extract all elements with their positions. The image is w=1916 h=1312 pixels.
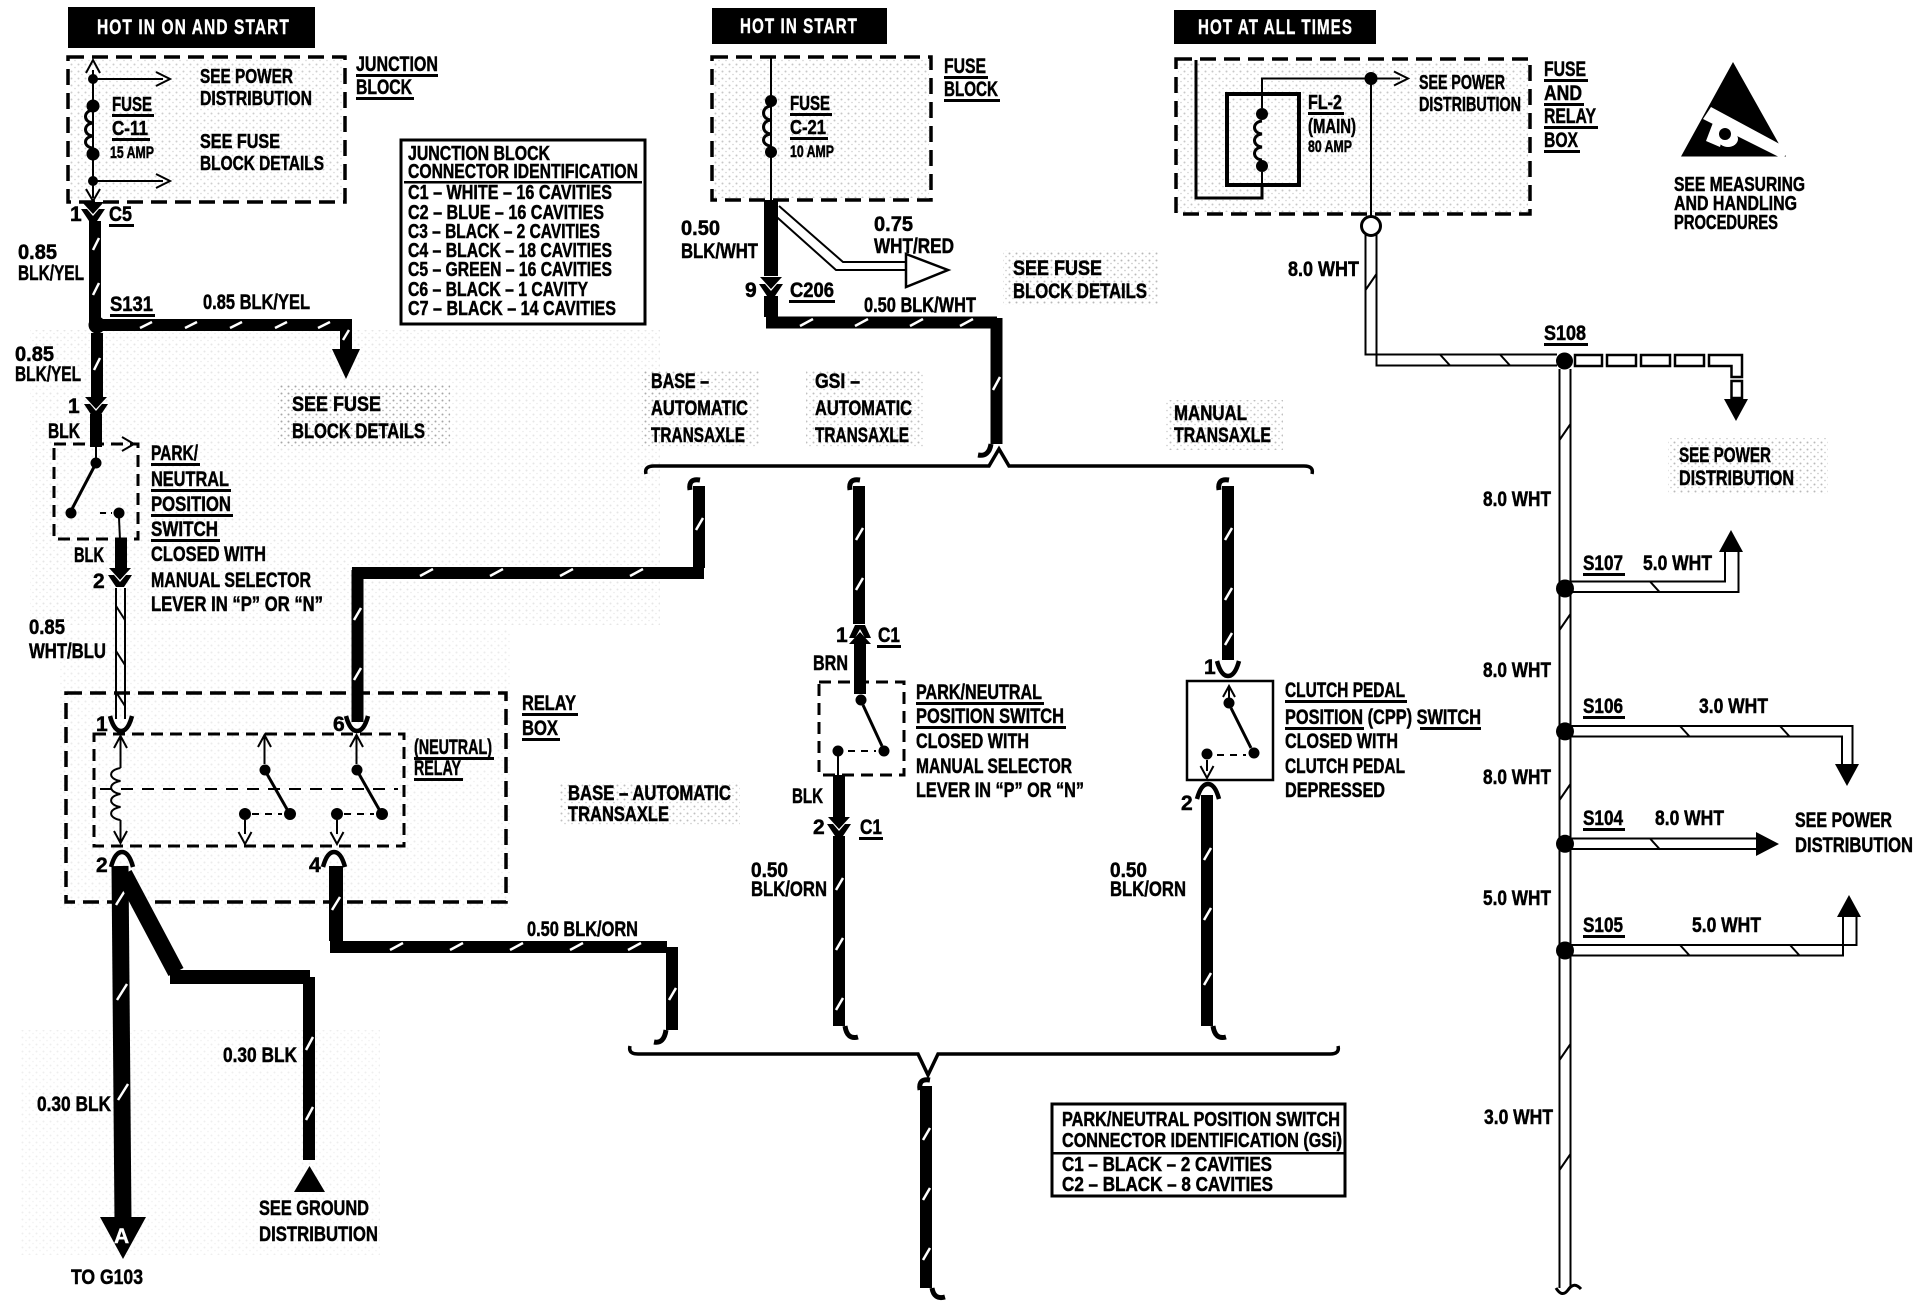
svg-text:S108: S108 [1544, 322, 1586, 345]
node S107 [1556, 580, 1574, 598]
svg-text:DISTRIBUTION: DISTRIBUTION [259, 1223, 378, 1246]
svg-text:PARK/NEUTRAL: PARK/NEUTRAL [916, 681, 1042, 704]
terminal circle [1362, 217, 1381, 236]
label SEE MEASURING AND HANDLING PROCEDURES [1674, 174, 1805, 234]
svg-text:POSITION (CPP) SWITCH: POSITION (CPP) SWITCH [1285, 706, 1481, 729]
wire 0.50 BLK/ORN (GSI) down [836, 836, 843, 1026]
svg-text:4: 4 [309, 854, 321, 877]
svg-text:BLK/ORN: BLK/ORN [1110, 878, 1186, 901]
wire end hook below brace wire [932, 1288, 945, 1298]
node: junction dot lower [88, 176, 98, 186]
svg-text:TRANSAXLE: TRANSAXLE [815, 424, 909, 447]
label S107 5.0 WHT [1583, 552, 1712, 576]
svg-text:RELAY: RELAY [1544, 105, 1596, 128]
wire GSI branch from brace [850, 480, 863, 624]
svg-text:2: 2 [93, 570, 105, 593]
label FUSE AND RELAY BOX [1544, 58, 1598, 153]
arrow down to see fuse block details [332, 349, 360, 379]
label BASE AUTOMATIC TRANSAXLE column [642, 370, 760, 448]
label S131 [110, 293, 155, 317]
label PARK/NEUTRAL POSITION SWITCH (GSI) [916, 681, 1084, 802]
fuse holder FL-2 box [1227, 94, 1299, 185]
svg-text:8.0 WHT: 8.0 WHT [1483, 766, 1551, 789]
svg-text:2: 2 [813, 816, 825, 839]
svg-text:DISTRIBUTION: DISTRIBUTION [1419, 94, 1521, 116]
node: dot above fuse C-21 [765, 95, 777, 107]
svg-text:(MAIN): (MAIN) [1308, 116, 1356, 138]
relay box outer dashed [66, 693, 506, 902]
svg-text:CLOSED WITH: CLOSED WITH [151, 543, 266, 566]
svg-text:0.50: 0.50 [681, 217, 720, 240]
svg-text:2: 2 [96, 854, 108, 877]
svg-text:BLK/YEL: BLK/YEL [18, 262, 84, 285]
svg-text:C-21: C-21 [790, 117, 826, 139]
label 0.50 BLK/WHT [681, 217, 758, 263]
junction block internal bus wire [86, 60, 100, 201]
node S131 [89, 317, 106, 334]
svg-text:0.50 BLK/WHT: 0.50 BLK/WHT [864, 294, 976, 317]
svg-text:0.85: 0.85 [29, 616, 65, 639]
arrow right (S104) [1756, 832, 1779, 856]
svg-text:BLOCK DETAILS: BLOCK DETAILS [1013, 280, 1147, 303]
connector pin 2 (CPP) [1181, 784, 1219, 815]
fuse block dashed box (middle) [712, 57, 931, 200]
label PARK/NEUTRAL POSITION SWITCH ... [151, 442, 323, 616]
svg-text:TRANSAXLE: TRANSAXLE [568, 803, 669, 826]
svg-text:FL-2: FL-2 [1308, 92, 1342, 114]
svg-text:AND: AND [1544, 82, 1582, 105]
arrow down (S106) [1835, 764, 1859, 786]
svg-text:0.50 BLK/ORN: 0.50 BLK/ORN [527, 918, 638, 941]
label FL-2 (MAIN) 80 AMP [1308, 92, 1356, 156]
header bar HOT IN ON AND START [68, 7, 315, 48]
svg-text:9: 9 [745, 279, 757, 302]
wire arrow to see fuse block details [93, 174, 170, 188]
svg-text:C7 – BLACK – 14 CAVITIES: C7 – BLACK – 14 CAVITIES [408, 298, 616, 320]
svg-text:MANUAL: MANUAL [1174, 402, 1247, 425]
svg-text:TRANSAXLE: TRANSAXLE [1174, 424, 1271, 447]
arrow down to see power distribution (S108) [1724, 399, 1748, 421]
svg-text:2: 2 [1181, 792, 1193, 815]
label JUNCTION BLOCK [356, 53, 438, 100]
wire continuation squiggle bottom right [1556, 1285, 1581, 1293]
label BLK 2 [74, 544, 105, 593]
label SEE POWER DISTRIBUTION (S108) [1668, 438, 1828, 494]
fuse and relay box dashed (right) [1176, 59, 1530, 214]
svg-text:TRANSAXLE: TRANSAXLE [651, 424, 745, 447]
PNP switch contacts and lever [66, 447, 125, 540]
svg-text:C2 – BLACK – 8 CAVITIES: C2 – BLACK – 8 CAVITIES [1062, 1174, 1273, 1196]
relay coil [111, 736, 127, 843]
fuse C-21 element [764, 106, 772, 146]
svg-text:SEE FUSE: SEE FUSE [1013, 257, 1102, 280]
svg-text:SEE POWER: SEE POWER [1419, 72, 1505, 94]
label 0.85 WHT/BLU [29, 616, 106, 663]
svg-text:C5: C5 [109, 203, 132, 226]
svg-text:3.0 WHT: 3.0 WHT [1699, 695, 1768, 718]
svg-text:1: 1 [836, 624, 848, 647]
svg-text:0.30 BLK: 0.30 BLK [223, 1044, 297, 1067]
svg-text:CLOSED WITH: CLOSED WITH [916, 730, 1029, 753]
svg-text:BLOCK DETAILS: BLOCK DETAILS [200, 153, 324, 175]
svg-text:HOT IN START: HOT IN START [740, 15, 858, 38]
svg-text:BOX: BOX [1544, 129, 1578, 152]
svg-text:POSITION SWITCH: POSITION SWITCH [916, 705, 1064, 728]
label 0.50 BLK/ORN (GSI) [751, 859, 827, 901]
svg-text:POSITION: POSITION [151, 493, 231, 516]
svg-text:DISTRIBUTION: DISTRIBUTION [1795, 834, 1913, 857]
svg-text:BLOCK: BLOCK [944, 78, 998, 101]
label RELAY BOX [522, 692, 578, 741]
node S105 [1556, 942, 1574, 960]
GSI switch contacts and lever [833, 695, 890, 776]
label 0.85 BLK/YEL upper [18, 241, 84, 285]
svg-text:LEVER IN “P” OR “N”: LEVER IN “P” OR “N” [916, 779, 1084, 802]
svg-text:1: 1 [68, 395, 80, 418]
svg-text:BLK: BLK [74, 544, 104, 567]
label MANUAL TRANSAXLE column [1165, 400, 1283, 450]
wire end hook (GSI) [845, 1026, 858, 1038]
svg-text:AUTOMATIC: AUTOMATIC [815, 397, 912, 420]
svg-text:80 AMP: 80 AMP [1308, 137, 1352, 156]
svg-text:JUNCTION: JUNCTION [356, 53, 438, 76]
label FUSE C-11 15 AMP [110, 94, 154, 162]
label 0.75 WHT/RED [874, 213, 954, 258]
svg-text:15 AMP: 15 AMP [110, 143, 154, 162]
svg-text:BASE –: BASE – [651, 370, 709, 393]
wire 0.30 BLK ground main to G103 [116, 866, 128, 1222]
GSI park/neutral switch dashed box [819, 682, 904, 775]
svg-text:C1: C1 [860, 816, 882, 839]
wire 0.85 BLK/YEL C5 to S131 [93, 221, 99, 325]
wire end hook above brace [978, 444, 991, 455]
svg-text:FUSE: FUSE [1544, 58, 1586, 81]
svg-text:WHT/BLU: WHT/BLU [29, 640, 106, 663]
wire 0.50 BLK/ORN (CPP) down [1204, 795, 1211, 1026]
relay pin 1 [96, 713, 132, 736]
svg-text:RELAY: RELAY [522, 692, 576, 715]
svg-text:SEE POWER: SEE POWER [1795, 809, 1892, 832]
CPP switch contacts and lever [1201, 686, 1260, 778]
svg-text:S106: S106 [1583, 695, 1623, 718]
svg-text:GSI –: GSI – [815, 370, 860, 393]
wire 0.85 BLK/YEL S131 down [94, 333, 100, 399]
label BASE AUTOMATIC TRANSAXLE (relay) [560, 782, 740, 826]
svg-text:DEPRESSED: DEPRESSED [1285, 779, 1385, 802]
svg-text:8.0 WHT: 8.0 WHT [1655, 807, 1724, 830]
label S105 5.0 WHT [1583, 914, 1761, 938]
svg-text:1: 1 [1204, 656, 1216, 679]
node S106 [1556, 722, 1574, 740]
wire 0.50 BLK/ORN from relay pin 4 [330, 866, 676, 1030]
label SEE GROUND DISTRIBUTION [259, 1197, 378, 1246]
label CLUTCH PEDAL POSITION (CPP) SWITCH ... [1285, 679, 1481, 802]
svg-text:CONNECTOR IDENTIFICATION (GSi): CONNECTOR IDENTIFICATION (GSi) [1062, 1130, 1342, 1152]
label 0.85 BLK/YEL lower [15, 343, 81, 386]
wire 0.75 WHT/RED branch with open arrow [770, 206, 948, 287]
arrow to see ground distribution [294, 1166, 325, 1192]
svg-text:PROCEDURES: PROCEDURES [1674, 212, 1778, 234]
brace upper [646, 449, 1313, 474]
junction block connector identification box [401, 140, 645, 324]
svg-text:5.0 WHT: 5.0 WHT [1483, 887, 1551, 910]
label S104 8.0 WHT [1583, 807, 1724, 831]
svg-text:FUSE: FUSE [944, 55, 986, 78]
svg-text:0.30 BLK: 0.30 BLK [37, 1093, 111, 1116]
clutch pedal position switch box [1187, 681, 1273, 780]
node: junction dot right box [1365, 72, 1378, 85]
wire 8.0 WHT bus S108 down [1560, 369, 1571, 1288]
svg-text:5.0 WHT: 5.0 WHT [1692, 914, 1761, 937]
svg-text:10 AMP: 10 AMP [790, 142, 834, 161]
relay pin 2 [96, 852, 133, 877]
relay pin 6 [333, 713, 368, 736]
wire 5.0 WHT S107 branch [1570, 552, 1739, 593]
svg-text:1: 1 [70, 203, 82, 226]
wire BLK below GSI switch [833, 775, 845, 818]
header bar HOT IN START [712, 8, 887, 44]
svg-text:BLK/ORN: BLK/ORN [751, 878, 827, 901]
wire junction down to circle terminal [1370, 79, 1372, 217]
svg-text:S104: S104 [1583, 807, 1623, 830]
label FUSE C-21 10 AMP [790, 93, 834, 161]
svg-text:C-11: C-11 [112, 118, 148, 140]
label SEE POWER DISTRIBUTION (box) [1419, 72, 1521, 116]
wire FL-2 to junction [1262, 79, 1371, 95]
arrow to see power distribution (box) [1371, 72, 1408, 86]
label S106 3.0 WHT [1583, 695, 1768, 719]
wire below lower brace [920, 1080, 930, 1288]
svg-text:LEVER IN “P” OR “N”: LEVER IN “P” OR “N” [151, 593, 323, 616]
svg-text:0.75: 0.75 [874, 213, 913, 236]
node: junction dot below fuse [87, 148, 100, 161]
svg-text:RELAY: RELAY [414, 757, 461, 780]
node: dot below fuse C-21 [765, 146, 777, 158]
wire 0.85 BLK/YEL S131 to fuse block arrow [100, 322, 349, 352]
svg-text:PARK/: PARK/ [151, 442, 198, 465]
connector C206 pin 9 [745, 277, 835, 303]
fuse C-21 wire [770, 57, 772, 200]
svg-text:3.0 WHT: 3.0 WHT [1484, 1106, 1553, 1129]
connector C1 pin 1 (GSI) [836, 624, 901, 648]
svg-text:CLOSED WITH: CLOSED WITH [1285, 730, 1398, 753]
svg-text:8.0 WHT: 8.0 WHT [1483, 659, 1551, 682]
wire 0.85 WHT/BLU white wire down to relay [116, 588, 125, 719]
svg-text:BLK/YEL: BLK/YEL [15, 363, 81, 386]
svg-text:FUSE: FUSE [112, 94, 152, 116]
node: junction dot above fuse [87, 100, 100, 113]
connector C5 pin 1 [70, 202, 134, 227]
svg-text:C206: C206 [790, 279, 834, 302]
wire 0.50 BLK/WHT C206 to brace [766, 296, 1000, 444]
svg-text:SWITCH: SWITCH [151, 518, 218, 541]
svg-text:C5 – GREEN – 16 CAVITIES: C5 – GREEN – 16 CAVITIES [408, 259, 612, 281]
svg-text:S105: S105 [1583, 914, 1623, 937]
park/neutral position switch dashed box [54, 444, 138, 539]
svg-text:BLK: BLK [792, 785, 823, 808]
svg-text:S107: S107 [1583, 552, 1623, 575]
svg-text:FUSE: FUSE [790, 93, 830, 115]
svg-text:MANUAL SELECTOR: MANUAL SELECTOR [916, 755, 1072, 778]
node S104 [1556, 835, 1574, 853]
ESD warning triangle [1681, 62, 1789, 159]
svg-text:SEE POWER: SEE POWER [1679, 444, 1771, 467]
wire 5.0 WHT S105 branch [1570, 917, 1857, 956]
connector pin 1 (CPP) [1204, 656, 1239, 679]
label (NEUTRAL) RELAY [414, 736, 494, 781]
svg-text:C1: C1 [878, 624, 900, 647]
relay switch B (right) [331, 735, 389, 844]
label SEE FUSE BLOCK DETAILS [200, 131, 324, 175]
svg-text:TO G103: TO G103 [71, 1266, 143, 1289]
brace lower [630, 1046, 1339, 1075]
label SEE FUSE BLOCK DETAILS left [278, 385, 450, 447]
label GSI AUTOMATIC TRANSAXLE column [806, 370, 924, 448]
svg-text:CLUTCH PEDAL: CLUTCH PEDAL [1285, 679, 1405, 702]
svg-text:CLUTCH PEDAL: CLUTCH PEDAL [1285, 755, 1405, 778]
svg-text:NEUTRAL: NEUTRAL [151, 468, 229, 491]
svg-text:0.85 BLK/YEL: 0.85 BLK/YEL [203, 291, 310, 314]
svg-text:HOT AT ALL TIMES: HOT AT ALL TIMES [1198, 16, 1353, 39]
arrow up (S105) [1837, 895, 1861, 917]
svg-text:DISTRIBUTION: DISTRIBUTION [200, 88, 312, 110]
wire BLK below switch [115, 540, 127, 570]
connector pin 1 BLK [48, 395, 108, 443]
wire 8.0 WHT S104 branch [1570, 839, 1757, 850]
wire BASE branch from brace to relay pin 6 [352, 480, 704, 722]
svg-text:WHT/RED: WHT/RED [874, 235, 954, 258]
svg-text:BOX: BOX [522, 717, 558, 740]
wire 3.0 WHT S106 branch [1570, 726, 1853, 764]
svg-text:S131: S131 [110, 293, 153, 316]
relay switch A (middle) [239, 735, 297, 844]
label SEE POWER DISTRIBUTION [200, 66, 312, 110]
svg-text:BLOCK DETAILS: BLOCK DETAILS [292, 420, 425, 443]
neutral relay inner dashed box [94, 734, 404, 846]
node: junction dot top [88, 74, 98, 84]
label FUSE BLOCK (middle) [944, 55, 1000, 102]
svg-text:SEE FUSE: SEE FUSE [292, 393, 381, 416]
svg-text:BASE – AUTOMATIC: BASE – AUTOMATIC [568, 782, 731, 805]
wire arrow to see power distribution [93, 72, 170, 86]
svg-text:8.0 WHT: 8.0 WHT [1288, 258, 1359, 281]
label S108 [1544, 322, 1588, 346]
hollow dashed bus from S108 [1575, 355, 1742, 398]
svg-text:MANUAL SELECTOR: MANUAL SELECTOR [151, 569, 311, 592]
label SEE POWER DISTRIBUTION (S104) [1795, 809, 1913, 857]
junction block dashed box [68, 57, 345, 202]
wire MANUAL branch from brace [1219, 480, 1232, 660]
switch actuation arrow [122, 437, 134, 451]
relay pin 4 [309, 852, 345, 877]
svg-text:(NEUTRAL): (NEUTRAL) [414, 736, 492, 759]
connector pin 2 [108, 568, 132, 587]
svg-text:CONNECTOR IDENTIFICATION: CONNECTOR IDENTIFICATION [408, 161, 638, 183]
svg-text:5.0 WHT: 5.0 WHT [1643, 552, 1712, 575]
PNP switch connector identification box [1052, 1104, 1345, 1196]
connector C1 pin 2 (GSI) [813, 816, 883, 840]
wire 0.50 BLK/WHT fuse to C206 [764, 200, 778, 276]
svg-text:C1 – WHITE – 16 CAVITIES: C1 – WHITE – 16 CAVITIES [408, 182, 612, 204]
svg-text:A: A [114, 1225, 129, 1248]
svg-text:DISTRIBUTION: DISTRIBUTION [1679, 467, 1794, 490]
svg-text:BRN: BRN [813, 652, 848, 675]
header bar HOT AT ALL TIMES [1174, 10, 1376, 44]
wire 0.30 BLK branch to ground distribution [124, 874, 313, 1160]
label 0.50 BLK/ORN (CPP) [1110, 859, 1186, 901]
wire 8.0 WHT circle to S108 [1366, 235, 1558, 366]
node S108 [1556, 353, 1573, 370]
arrow up (S107) [1719, 530, 1743, 552]
svg-text:BLOCK: BLOCK [356, 76, 412, 99]
svg-text:HOT IN ON AND START: HOT IN ON AND START [97, 16, 290, 39]
fuse C-11 element [86, 110, 94, 148]
svg-text:SEE FUSE: SEE FUSE [200, 131, 280, 153]
svg-text:C1 – BLACK – 2 CAVITIES: C1 – BLACK – 2 CAVITIES [1062, 1154, 1272, 1176]
wire end hook relay branch [654, 1030, 666, 1042]
svg-text:0.85: 0.85 [18, 241, 57, 264]
svg-text:8.0 WHT: 8.0 WHT [1483, 488, 1551, 511]
wire end hook (CPP) [1213, 1026, 1226, 1038]
wire BLK into PNP switch [90, 414, 102, 447]
svg-text:SEE GROUND: SEE GROUND [259, 1197, 369, 1220]
svg-text:BLK: BLK [48, 420, 80, 443]
internal bus L-wire [1196, 60, 1262, 198]
label SEE FUSE BLOCK DETAILS (middle) [1003, 250, 1159, 305]
svg-text:AUTOMATIC: AUTOMATIC [651, 397, 748, 420]
svg-text:PARK/NEUTRAL POSITION SWITCH: PARK/NEUTRAL POSITION SWITCH [1062, 1109, 1340, 1131]
relay internal dashed link line [100, 788, 398, 790]
arrow A to G103 [100, 1217, 146, 1259]
FL-2 fuse element [1255, 94, 1269, 186]
wire BRN into GSI switch [854, 641, 866, 694]
svg-text:SEE POWER: SEE POWER [200, 66, 293, 88]
svg-text:BLK/WHT: BLK/WHT [681, 240, 758, 263]
